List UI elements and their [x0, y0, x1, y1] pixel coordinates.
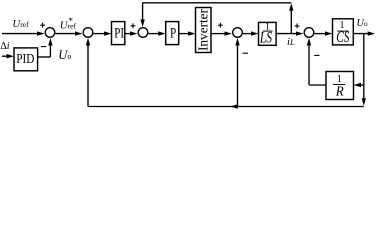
svg-text:PID: PID — [16, 51, 34, 66]
block PI (voltage regulator) — [112, 22, 125, 45]
plus sign at S1 left input — [40, 23, 45, 28]
svg-text:Inverter: Inverter — [197, 9, 212, 51]
summing junction S4 — [233, 28, 243, 38]
plus sign at S5 left input — [295, 24, 300, 29]
wire P to Inverter — [179, 33, 191, 35]
wire S5 to 1/CS block — [315, 33, 328, 35]
svg-text:iL: iL — [287, 36, 295, 48]
wire output down branch — [363, 34, 365, 102]
svg-text:Uref: Uref — [12, 18, 29, 30]
svg-text:P: P — [170, 24, 176, 41]
block 1/R (load) — [326, 72, 354, 100]
block P (current regulator) — [166, 22, 179, 45]
wire S2 to PI block — [94, 33, 107, 35]
wire PID output up into S1 — [38, 56, 51, 58]
wire current feedback branch up — [290, 8, 292, 34]
wire 1/LS to S5 (current iL) — [276, 33, 298, 35]
svg-text:Uo: Uo — [357, 18, 368, 29]
wire PI to S3 — [125, 33, 133, 35]
wire into 1/R block — [359, 84, 364, 86]
wire 1/R output up into S5 — [309, 84, 326, 86]
summing junction S3 — [138, 28, 148, 38]
wire S1 to S2 (Uref*) — [56, 33, 78, 35]
block 1/LS (inductor) — [259, 22, 277, 45]
minus sign at S1 bottom input — [41, 46, 46, 48]
plus sign at S3 left input — [131, 23, 136, 28]
wire Inverter to S4 — [211, 33, 227, 35]
wire output Uo — [353, 33, 369, 35]
summing junction S5 — [304, 28, 314, 38]
plus sign at S4 left input — [218, 23, 223, 28]
minus sign at S4 bottom input — [243, 52, 248, 54]
svg-text:*: * — [68, 16, 73, 26]
summing junction S1 — [45, 28, 55, 38]
wire current feedback down into S3 — [142, 3, 144, 23]
block 1/CS (capacitor) — [333, 19, 354, 45]
svg-text:PI: PI — [114, 25, 124, 41]
wire S4 to 1/LS block — [243, 33, 254, 35]
wire current feedback top horizontal — [143, 2, 292, 4]
block PID — [14, 48, 38, 71]
block Inverter — [196, 8, 212, 53]
summing junction S2 — [83, 28, 93, 38]
svg-text:R: R — [335, 83, 345, 99]
wire S3 to P block — [149, 33, 161, 35]
wire bottom feedback up into S2 — [87, 44, 89, 107]
wire bottom feedback up into S4 — [237, 44, 239, 107]
wire delta-i into PID — [2, 55, 9, 57]
svg-text:CS: CS — [336, 28, 349, 45]
minus sign at S5 bottom input — [314, 54, 319, 56]
svg-text:Uo: Uo — [58, 48, 71, 62]
wire Uref input into summer S1 — [2, 33, 39, 35]
svg-text:Δi: Δi — [0, 41, 10, 52]
wire bottom feedback horizontal — [88, 106, 364, 108]
svg-text:LS: LS — [259, 29, 272, 46]
